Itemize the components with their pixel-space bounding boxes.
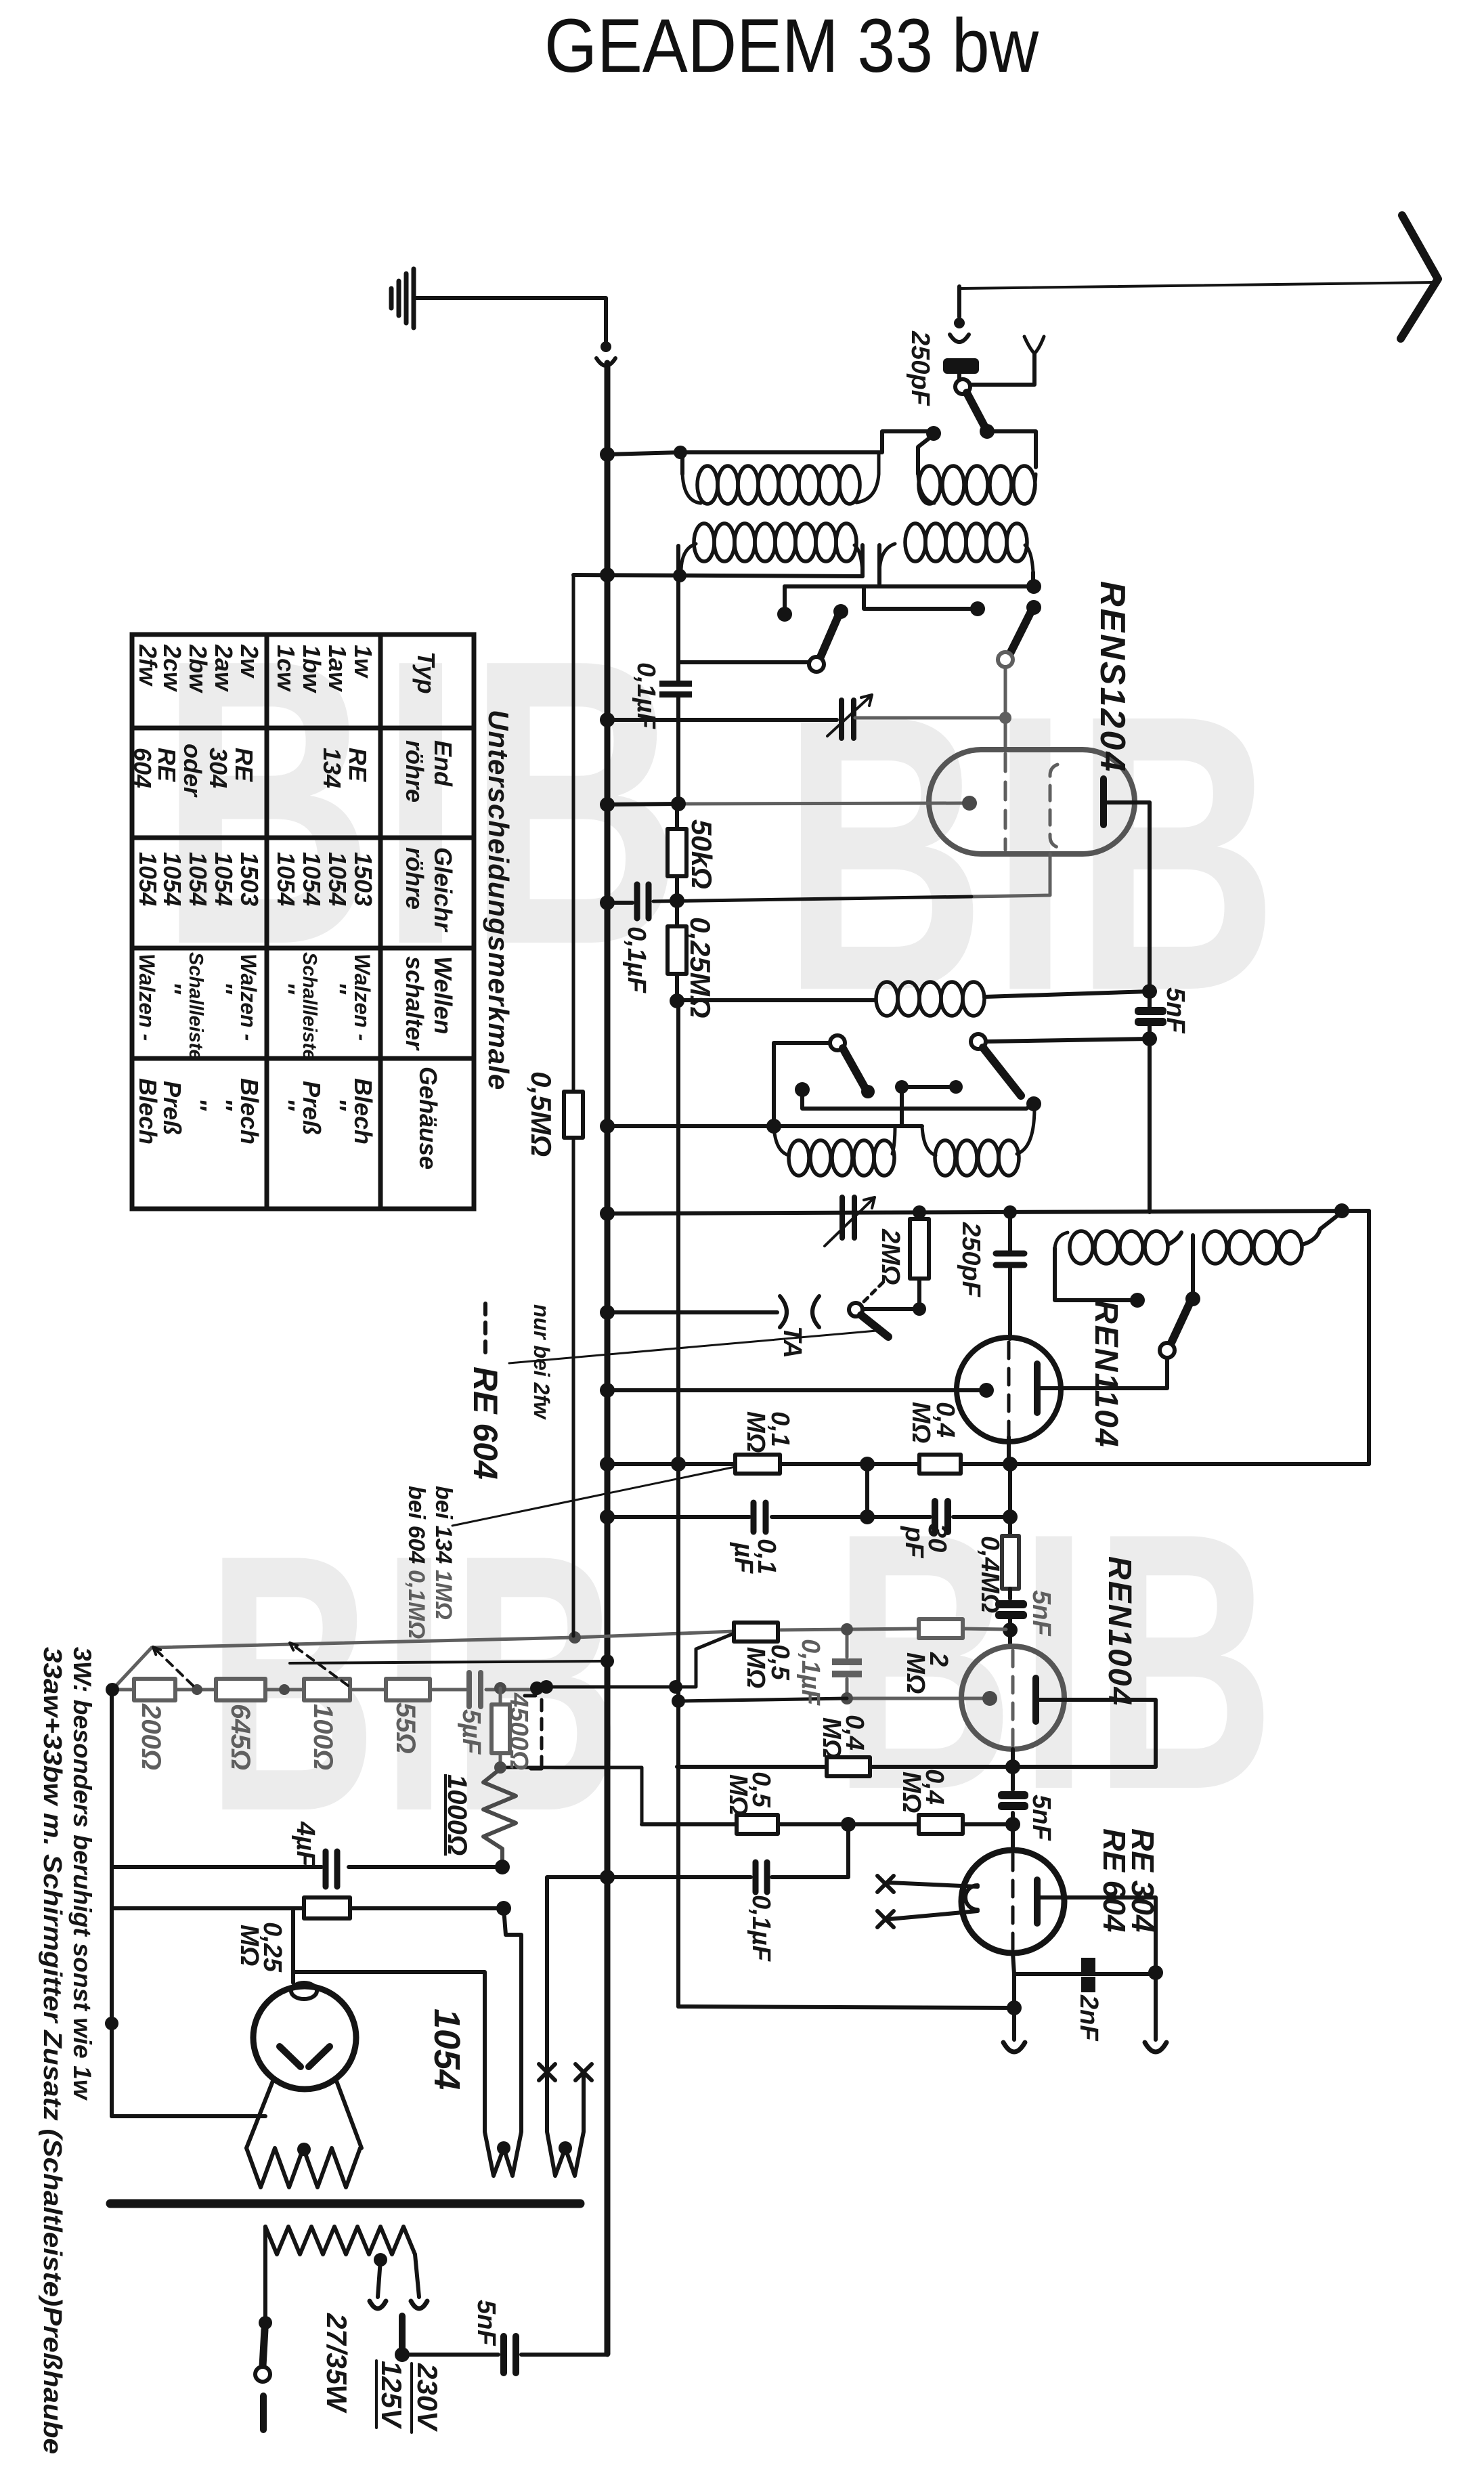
filament electrodes 1054 bbox=[280, 2046, 330, 2067]
wire bus to coil box A bbox=[607, 452, 680, 454]
switch pivot circle bbox=[955, 379, 970, 394]
node chain end bbox=[530, 1681, 544, 1695]
TA dashes bbox=[864, 1283, 883, 1302]
node anode y2913 bbox=[1148, 1965, 1163, 1980]
contact dot (switch throw) bbox=[926, 426, 941, 441]
node D right bbox=[1026, 579, 1041, 594]
left rail x165 bbox=[110, 1691, 114, 2116]
mains switch circle bbox=[255, 2367, 270, 2382]
svg-text:0,1MΩ: 0,1MΩ bbox=[403, 1570, 429, 1639]
svg-text:304: 304 bbox=[204, 748, 232, 788]
trimmer capacitor 2 plates bbox=[842, 1197, 854, 1238]
node bus y1333 bbox=[600, 895, 615, 910]
svg-text:oder: oder bbox=[179, 744, 206, 798]
svg-text:″: ″ bbox=[324, 1098, 351, 1111]
coil B left edge bbox=[918, 435, 934, 474]
svg-text:RE: RE bbox=[230, 748, 258, 782]
plug cup on bus bbox=[596, 358, 615, 366]
node anode line bbox=[1142, 984, 1157, 999]
gray switch circle bbox=[998, 652, 1013, 667]
grid dashed REN1104 bbox=[1007, 1342, 1011, 1437]
svg-text:2aw: 2aw bbox=[210, 644, 238, 692]
svg-text:0,1µF: 0,1µF bbox=[747, 1895, 775, 1962]
trimmer arrow bbox=[827, 695, 872, 736]
coil box B right edge bbox=[987, 431, 1036, 467]
capacitor 5uF plates bbox=[469, 1673, 481, 1707]
wire to grid2 line bbox=[653, 897, 972, 901]
tube REN1004 envelope (gray) bbox=[961, 1646, 1064, 1749]
svg-text:250pF: 250pF bbox=[906, 330, 934, 407]
tube 1054 envelope bbox=[253, 1986, 356, 2089]
gray node bbox=[999, 712, 1011, 724]
antenna arrowhead bbox=[1401, 215, 1438, 339]
svg-text:5nF: 5nF bbox=[1161, 987, 1190, 1034]
plug ball bbox=[954, 318, 965, 328]
node bus-A bbox=[600, 447, 615, 462]
resistor 0,4MOhm bbox=[919, 1455, 961, 1474]
underline 230V bbox=[410, 2363, 413, 2432]
node bus y1938 bbox=[600, 1305, 615, 1320]
node grid y2694 bbox=[1005, 1817, 1020, 1832]
coil D end curves bbox=[879, 544, 1033, 572]
resistor 0,1MOhm bbox=[735, 1455, 780, 1474]
primary left lead bbox=[263, 2227, 267, 2319]
anode bar REN1004 bbox=[1032, 1678, 1039, 1721]
thin tap wire 2 bbox=[290, 1661, 607, 1663]
node tap bbox=[540, 1680, 553, 1694]
anode bar RE604 bbox=[1034, 1880, 1041, 1923]
tube REN1104 envelope bbox=[957, 1337, 1061, 1442]
svg-text:Unterscheidungsmerkmale: Unterscheidungsmerkmale bbox=[483, 710, 515, 1090]
svg-text:2nF: 2nF bbox=[1074, 1994, 1103, 2042]
svg-text:Wellen: Wellen bbox=[429, 956, 457, 1034]
gray wire trimmer to grid bbox=[855, 667, 1005, 748]
svg-text:604: 604 bbox=[129, 748, 156, 788]
mains pin bbox=[399, 2316, 406, 2350]
x mark 2 bbox=[877, 1911, 894, 1927]
grid dashed RE604 bbox=[1011, 1854, 1015, 1949]
wire y2757 bbox=[112, 1865, 502, 1869]
svg-text:1054: 1054 bbox=[427, 2009, 467, 2090]
svg-text:125V: 125V bbox=[376, 2361, 408, 2429]
svg-text:Walzen -: Walzen - bbox=[236, 953, 261, 1041]
tube 1054 top cap bbox=[291, 1983, 317, 1999]
antenna down lead with plug bbox=[957, 286, 961, 317]
gray node cathode line bbox=[841, 1692, 853, 1704]
svg-text:645Ω: 645Ω bbox=[225, 1704, 255, 1770]
gray cathode wire REN1004 bbox=[847, 1697, 983, 1700]
anode lead to right bbox=[1108, 800, 1150, 805]
cathode dot REN1004 bbox=[982, 1691, 997, 1706]
heater leads with x marks bbox=[889, 1883, 978, 1919]
svg-text:1000Ω: 1000Ω bbox=[442, 1774, 472, 1855]
table row lines bbox=[267, 635, 380, 1209]
arm end dot bbox=[861, 1085, 875, 1098]
svg-text:5nF: 5nF bbox=[1027, 1795, 1055, 1841]
resistor 0,4MOhm (second) bbox=[919, 1815, 963, 1834]
coil F right end riser bbox=[1302, 1212, 1342, 1245]
gray wire to 2M bbox=[778, 1629, 919, 1630]
mains switch stub bbox=[260, 2396, 267, 2430]
svg-text:bei 604: bei 604 bbox=[403, 1486, 429, 1564]
svg-text:Preß: Preß bbox=[298, 1081, 326, 1135]
wire y3125 bbox=[112, 2114, 265, 2118]
node bus y1188 bbox=[600, 797, 615, 812]
node grid line top bbox=[1003, 1205, 1017, 1219]
anode lead bbox=[1037, 1386, 1043, 1390]
svg-text:1054: 1054 bbox=[210, 852, 238, 906]
right edge of box bbox=[1367, 1211, 1371, 1464]
capacitor 5nF plates (grid REN1004) bbox=[995, 1600, 1027, 1608]
node coil C left bbox=[673, 569, 686, 582]
resistor 0,5MOhm (first) bbox=[734, 1623, 778, 1642]
tap hook 2 bbox=[411, 2301, 427, 2309]
main bus (earth rail) bbox=[605, 363, 611, 2354]
ground symbol bbox=[389, 288, 394, 308]
svg-text:pF: pF bbox=[900, 1526, 928, 1559]
reaction coil F loops bbox=[1204, 1231, 1227, 1264]
svg-text:5µF: 5µF bbox=[457, 1709, 485, 1755]
speaker hook left bbox=[1003, 2042, 1025, 2052]
screen grid lead below tube bbox=[972, 854, 1050, 897]
plug cup bbox=[950, 335, 969, 342]
node bus y2772 bbox=[600, 1870, 615, 1885]
reaction coil E loops bbox=[1055, 1232, 1068, 1248]
resistor 0,25MOhm bbox=[304, 1897, 350, 1918]
wire x948 riser bbox=[502, 1767, 642, 1824]
svg-text:″: ″ bbox=[210, 982, 238, 995]
svg-text:Schallleiste: Schallleiste bbox=[185, 952, 206, 1060]
table column lines bbox=[132, 728, 474, 1058]
svg-text:100Ω: 100Ω bbox=[308, 1704, 338, 1770]
contact dot bbox=[970, 601, 985, 616]
capacitor 0,1uF (top) plates bbox=[659, 681, 692, 687]
svg-text:RE: RE bbox=[344, 748, 372, 782]
resistor 0,25MOhm bbox=[675, 901, 679, 926]
node coil A left bbox=[674, 446, 687, 459]
node grid y2240 bbox=[1003, 1509, 1018, 1524]
x mark 1 bbox=[877, 1876, 894, 1892]
svg-text:0,1µF: 0,1µF bbox=[632, 662, 660, 730]
oscillator coil H loops bbox=[922, 1126, 936, 1155]
resistor 50kOhm bbox=[675, 804, 679, 829]
anode bar REN1104 bbox=[1034, 1364, 1041, 1413]
svg-text:200Ω: 200Ω bbox=[136, 1703, 166, 1770]
node: arm end bbox=[980, 424, 995, 439]
grid 2 dashed (screen grid) bbox=[1050, 765, 1057, 847]
filament winding zigzag bbox=[246, 2148, 360, 2187]
svg-text:Gehäuse: Gehäuse bbox=[414, 1067, 442, 1170]
resistor 2MOhm (gray) bbox=[919, 1619, 963, 1638]
link x1281 bbox=[865, 1464, 869, 1517]
svg-text:1w: 1w bbox=[349, 645, 377, 679]
node bus y2053 bbox=[600, 1383, 615, 1398]
switch arm (reaction) bbox=[1171, 1304, 1190, 1343]
node x1281 y2240 bbox=[860, 1509, 875, 1524]
wire y2609 bbox=[677, 1765, 1156, 1769]
TA switch arm bbox=[861, 1315, 888, 1337]
tap hook 1 bbox=[370, 2301, 386, 2309]
capacitor 5nF plates (grid RE604) bbox=[998, 1791, 1028, 1799]
node chain left bbox=[106, 1683, 119, 1696]
cathode wire from bus bbox=[607, 1388, 980, 1392]
svg-text:230V: 230V bbox=[412, 2363, 443, 2432]
svg-text:4µF: 4µF bbox=[291, 1821, 320, 1868]
svg-text:134: 134 bbox=[318, 748, 346, 788]
svg-text:Typ: Typ bbox=[412, 651, 440, 694]
coil D loops bbox=[905, 523, 925, 561]
TA switch circle bbox=[849, 1303, 863, 1316]
anode bar RENS1204 bbox=[1100, 779, 1107, 825]
svg-text:0,1µF: 0,1µF bbox=[796, 1639, 825, 1707]
primary tap leads bbox=[378, 2254, 419, 2297]
wire cathode link bbox=[678, 1698, 847, 1701]
svg-text:3W: besonders beruhigt sonst: 3W: besonders beruhigt sonst wie 1w bbox=[68, 1647, 96, 2101]
svg-text:Walzen -: Walzen - bbox=[135, 953, 159, 1041]
svg-text:″: ″ bbox=[272, 1098, 300, 1111]
wire mid stub bbox=[864, 586, 972, 609]
primary winding zigzag bbox=[265, 2227, 415, 2254]
svg-text:1054: 1054 bbox=[298, 852, 326, 906]
heater pair 2 with x marks bbox=[547, 1877, 607, 2176]
svg-text:1503: 1503 bbox=[349, 852, 377, 906]
svg-text:″: ″ bbox=[158, 982, 186, 995]
node switchbox left bbox=[766, 1119, 781, 1134]
antenna socket 2 fork bbox=[1024, 337, 1044, 353]
anode lead RE604 bbox=[1037, 1897, 1156, 2040]
node grid y2407 bbox=[1003, 1623, 1018, 1637]
capacitor 5nF plates (mains) bbox=[504, 2336, 516, 2373]
svg-text:″: ″ bbox=[184, 1098, 212, 1111]
svg-text:RE: RE bbox=[153, 748, 181, 782]
svg-text:MΩ: MΩ bbox=[724, 1774, 752, 1816]
resistor 55 Ohm bbox=[386, 1679, 430, 1700]
svg-text:Blech: Blech bbox=[236, 1078, 263, 1144]
pointer line nur-bei-2fw bbox=[509, 1330, 884, 1363]
svg-text:röhre: röhre bbox=[401, 847, 429, 909]
resistor 0,5MOhm (second) bbox=[737, 1815, 778, 1834]
switch arm row2-left bbox=[821, 616, 838, 657]
vertical line x1002 to node bbox=[676, 698, 680, 804]
capacitor 0,1uF plates (y2772) bbox=[756, 1862, 767, 1892]
svg-text:0,5MΩ: 0,5MΩ bbox=[525, 1071, 557, 1157]
anode vertical line bbox=[1148, 802, 1152, 1212]
wire y2694 bbox=[642, 1822, 1013, 1826]
dashed tap arrow 200 bbox=[153, 1647, 193, 1686]
node 1000 bottom bbox=[495, 1860, 510, 1874]
cathode dot bbox=[962, 796, 977, 811]
wire y2965 from x1000 bbox=[678, 2007, 1014, 2008]
contact dot with lead bbox=[795, 1082, 810, 1097]
wire row2 lower bbox=[785, 584, 1034, 588]
plug ball on bus bbox=[601, 341, 611, 352]
grid dashed REN1004 bbox=[1011, 1650, 1015, 1745]
resistor 100 Ohm bbox=[304, 1679, 350, 1700]
cathode arc RE604 bbox=[965, 1885, 978, 1910]
coil A baseline ends bbox=[682, 452, 879, 503]
svg-text:REN1104: REN1104 bbox=[1088, 1300, 1124, 1449]
svg-text:1054: 1054 bbox=[184, 852, 212, 906]
wire y2240 row bbox=[607, 1515, 1010, 1519]
node x1000 y1478 bbox=[670, 993, 684, 1008]
table outer frame bbox=[132, 635, 474, 1209]
oscillator coil G loops (hanging) bbox=[774, 1126, 789, 1155]
svg-text:schalter: schalter bbox=[401, 956, 429, 1051]
wire circle to anode lead bbox=[1043, 1358, 1167, 1388]
switch arm (antenna selector) bbox=[967, 393, 986, 429]
switch circle bbox=[1160, 1343, 1175, 1358]
svg-text:Blech: Blech bbox=[349, 1078, 377, 1144]
capacitor 0,1uF plates (gray) bbox=[832, 1658, 862, 1665]
svg-text:MΩ: MΩ bbox=[901, 1652, 930, 1694]
capacitor 250pF (grid) bbox=[1008, 1212, 1012, 1251]
node top line right bbox=[1334, 1203, 1349, 1218]
svg-text:4500Ω: 4500Ω bbox=[504, 1692, 533, 1770]
node grid RE604 top bbox=[1005, 1759, 1020, 1774]
grid chain x1492 bbox=[1008, 1464, 1012, 1536]
capacitor 30pF plates bbox=[935, 1501, 948, 1532]
svg-text:RENS1204: RENS1204 bbox=[1093, 581, 1132, 773]
anode lead REN1004 bbox=[1036, 1700, 1156, 1767]
switch pivot dot row2-right bbox=[1026, 600, 1041, 615]
svg-text:Preß: Preß bbox=[158, 1081, 186, 1135]
wire mains to bus bbox=[402, 2353, 607, 2357]
node left rail bbox=[105, 2017, 118, 2030]
node y2818 right bbox=[496, 1901, 511, 1916]
svg-text:Schallleiste: Schallleiste bbox=[299, 952, 320, 1060]
node y2162 mid bbox=[860, 1457, 875, 1472]
svg-text:0,25MΩ: 0,25MΩ bbox=[684, 917, 716, 1018]
svg-text:bei 134: bei 134 bbox=[431, 1486, 456, 1564]
switch arm row2-right (to gray circle) bbox=[1010, 613, 1030, 653]
grid 1 dashed (control grid) bbox=[1004, 754, 1007, 850]
antenna wire bbox=[961, 282, 1433, 288]
switch arm bandswitch-right bbox=[983, 1048, 1021, 1096]
switch circle row2-left bbox=[809, 657, 824, 672]
svg-text:1cw: 1cw bbox=[272, 645, 300, 692]
wire bus row2 bbox=[573, 575, 863, 576]
wire socket2 to switch bbox=[970, 353, 1034, 385]
svg-text:0,1µF: 0,1µF bbox=[622, 926, 651, 994]
vertical x1002 long bbox=[676, 1001, 680, 2007]
tube RENS1204 envelope bbox=[929, 750, 1135, 854]
gray node bbox=[841, 1623, 853, 1635]
svg-text:RE 604: RE 604 bbox=[1097, 1828, 1132, 1932]
gray vertical with 0,1uF bbox=[846, 1629, 849, 1698]
svg-text:TA: TA bbox=[778, 1326, 806, 1358]
svg-text:MΩ: MΩ bbox=[741, 1647, 770, 1688]
node 5uF right bbox=[494, 1682, 506, 1694]
svg-text:RE 604: RE 604 bbox=[466, 1367, 504, 1480]
wire ground to bus bbox=[416, 298, 606, 341]
coil C end curves bbox=[681, 544, 863, 572]
wire coil to anode line bbox=[984, 991, 1150, 997]
svg-text:2bw: 2bw bbox=[184, 644, 212, 693]
node switch top bbox=[259, 2316, 272, 2330]
node y2162 grid bbox=[1003, 1457, 1018, 1472]
underline 125V bbox=[375, 2361, 378, 2428]
resistor 0,5MOhm (detector) bbox=[564, 1092, 583, 1138]
svg-text:MΩ: MΩ bbox=[235, 1925, 263, 1966]
node bus y2240 bbox=[600, 1509, 615, 1524]
coil A loops bbox=[697, 466, 718, 504]
svg-text:µF: µF bbox=[729, 1542, 758, 1574]
capacitor 0,1uF plates (second) bbox=[637, 884, 649, 918]
svg-text:27/35W: 27/35W bbox=[321, 2313, 353, 2414]
tube RE604 envelope bbox=[961, 1850, 1064, 1953]
node 2M bottom bbox=[913, 1302, 926, 1316]
heater chain wire bbox=[112, 1688, 537, 1692]
svg-text:250pF: 250pF bbox=[957, 1222, 985, 1298]
svg-text:2cw: 2cw bbox=[158, 644, 186, 692]
node 5nF lower bbox=[1142, 1031, 1157, 1046]
node mains bbox=[395, 2347, 410, 2362]
wire TA line bbox=[607, 1310, 777, 1314]
stub to contact bbox=[783, 586, 787, 608]
heater pair 1 bbox=[293, 1908, 521, 2176]
node chain mid bbox=[192, 1684, 202, 1695]
TA socket fork bbox=[780, 1296, 819, 1327]
node right bbox=[1026, 1096, 1041, 1111]
node y2965 bbox=[1007, 2000, 1022, 2015]
svg-text:1054: 1054 bbox=[134, 852, 162, 906]
capacitor 5nF plates bbox=[1135, 1007, 1166, 1015]
svg-text:33aw+33bw m. Schirmgitter Zusa: 33aw+33bw m. Schirmgitter Zusatz (Schalt… bbox=[38, 1647, 66, 2454]
node x1002 y1187 bbox=[671, 796, 686, 811]
node bus y1663 bbox=[600, 1119, 615, 1134]
cathode lead gray bbox=[678, 803, 964, 804]
resistor 1000 Ohm zigzag bbox=[483, 1769, 516, 1866]
coil B end curves bbox=[918, 474, 1036, 503]
transformer core bar bbox=[110, 2200, 580, 2208]
node x1000 y2491 bbox=[669, 1680, 682, 1694]
svg-text:1054: 1054 bbox=[272, 852, 300, 906]
wire grid-bias row y2162 bbox=[607, 1462, 1369, 1466]
pointer line bei134 bbox=[452, 1467, 735, 1526]
grid leak line x847 bbox=[572, 575, 575, 1636]
node bus y1792 bbox=[600, 1206, 615, 1221]
dashed bracket 4500 bbox=[525, 1696, 542, 1769]
svg-text:1054: 1054 bbox=[324, 852, 351, 906]
gray bias wire from heater chain bbox=[112, 1631, 734, 1690]
node x1002 y2512 bbox=[672, 1694, 685, 1708]
resistor 0,4MOhm (y2609) bbox=[827, 1757, 870, 1776]
resistor 0,4MOhm vertical bbox=[1002, 1536, 1019, 1589]
svg-text:MΩ: MΩ bbox=[817, 1717, 846, 1759]
svg-text:röhre: röhre bbox=[401, 740, 429, 802]
node switch top bbox=[1185, 1291, 1200, 1306]
table Unterscheidungsmerkmale bbox=[129, 635, 515, 1209]
svg-text:5nF: 5nF bbox=[472, 2300, 500, 2346]
svg-text:nur bei 2fw: nur bei 2fw bbox=[529, 1304, 554, 1420]
wire TA circle to 2M bottom bbox=[863, 1307, 915, 1311]
switch pivot dot row2-left bbox=[833, 604, 848, 619]
svg-text:Blech: Blech bbox=[134, 1078, 162, 1144]
resistor 4500 Ohm vertical bbox=[499, 1688, 502, 1704]
switch arm bandswitch-left bbox=[843, 1048, 865, 1088]
cathode dot REN1104 bbox=[979, 1383, 994, 1398]
wire bus to x1002 node bbox=[607, 804, 678, 805]
wire y1477 with coupling coil bbox=[677, 998, 875, 1002]
svg-text:″: ″ bbox=[324, 982, 351, 995]
svg-text:2w: 2w bbox=[236, 644, 263, 679]
svg-text:GEADEM 33 bw: GEADEM 33 bw bbox=[544, 3, 1039, 88]
vertical line x1002 top bbox=[676, 546, 680, 681]
coil E-F mid connector bbox=[1168, 1232, 1193, 1293]
coil E left edge + stub bbox=[1055, 1248, 1132, 1300]
svg-text:MΩ: MΩ bbox=[897, 1772, 925, 1813]
svg-text:1bw: 1bw bbox=[298, 645, 326, 693]
